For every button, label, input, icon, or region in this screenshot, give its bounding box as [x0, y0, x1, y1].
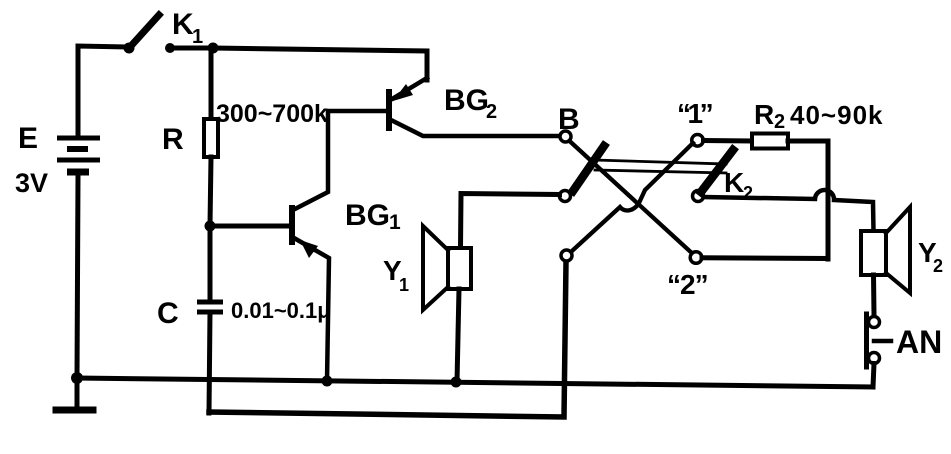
- wire battery negative down: [77, 176, 78, 378]
- resistor R: [204, 119, 218, 157]
- battery E: [57, 138, 100, 172]
- node R/C/BG1 base: [205, 221, 216, 232]
- svg-text:K: K: [724, 167, 744, 198]
- svg-text:2: 2: [743, 183, 753, 203]
- node BG1 emitter on rail: [322, 376, 333, 387]
- wire K2 middle-right to Y2 with hop: [704, 190, 874, 231]
- node battery on rail: [71, 372, 83, 384]
- wire R top: [209, 48, 214, 119]
- transistor BG1: [292, 111, 388, 381]
- K2 contact "2": [690, 252, 702, 264]
- svg-text:2: 2: [486, 101, 497, 123]
- K2 contact left bottom: [561, 250, 572, 261]
- svg-text:C: C: [157, 297, 179, 330]
- wire cross left-bottom to "1" with hop: [572, 143, 693, 251]
- svg-text:1: 1: [389, 211, 401, 234]
- svg-text:BG: BG: [345, 199, 390, 232]
- svg-text:2: 2: [933, 256, 943, 276]
- speaker Y2: [861, 207, 910, 293]
- svg-text:AN: AN: [896, 324, 942, 360]
- svg-text:2: 2: [774, 111, 785, 133]
- switch K1: [124, 15, 176, 54]
- resistor R2: [752, 134, 788, 149]
- capacitor C: [197, 302, 223, 312]
- svg-text:R: R: [162, 123, 184, 156]
- wire R bottom to node: [210, 157, 211, 226]
- wire capacitor bottom to lower rail: [209, 312, 210, 413]
- wire cross B to "2": [570, 141, 692, 253]
- wire K1 to top rail: [170, 48, 427, 80]
- svg-text:1: 1: [192, 26, 203, 48]
- svg-text:E: E: [18, 122, 38, 155]
- main ground rail: [77, 378, 873, 387]
- wire Y2 bottom to AN: [871, 275, 877, 315]
- svg-text:300~700k: 300~700k: [216, 100, 328, 128]
- K2 blade left: [573, 146, 604, 191]
- wire AN to rail: [873, 364, 874, 388]
- svg-text:1: 1: [399, 275, 409, 295]
- pushbutton AN: [867, 314, 892, 367]
- svg-text:“2”: “2”: [667, 269, 708, 300]
- node junction K1/R: [208, 43, 219, 54]
- wire K2 middle-left to Y1: [461, 194, 560, 249]
- K2 linkage lines: [595, 160, 726, 164]
- wire corner down: [826, 141, 831, 259]
- wire BG1 base: [210, 224, 288, 229]
- svg-text:R: R: [754, 99, 774, 130]
- svg-text:B: B: [558, 103, 580, 136]
- transistor BG2: [389, 78, 560, 136]
- wire node to capacitor: [208, 226, 213, 301]
- wire across to "2": [702, 255, 828, 261]
- K2 blade right: [701, 150, 733, 192]
- K2 contact left middle: [560, 191, 571, 202]
- node B contact: [560, 131, 571, 142]
- svg-text:3V: 3V: [15, 168, 48, 198]
- K2 contact "1": [692, 135, 704, 147]
- wire battery positive to K1: [78, 46, 127, 136]
- svg-text:40~90k: 40~90k: [790, 100, 883, 130]
- svg-text:0.01~0.1μ: 0.01~0.1μ: [231, 298, 331, 323]
- K2 contact right middle: [693, 191, 704, 202]
- node Y1 on rail: [451, 377, 462, 388]
- battery terminal stub: [75, 378, 80, 407]
- lower rail to K2: [209, 262, 566, 417]
- svg-text:K: K: [172, 8, 194, 41]
- svg-text:BG: BG: [444, 84, 489, 117]
- speaker Y1: [423, 226, 471, 310]
- svg-text:“1”: “1”: [677, 98, 712, 129]
- wire R2 to corner: [788, 139, 828, 144]
- wire Y1 bottom to rail: [457, 289, 459, 382]
- wire "1" to R2: [704, 138, 753, 144]
